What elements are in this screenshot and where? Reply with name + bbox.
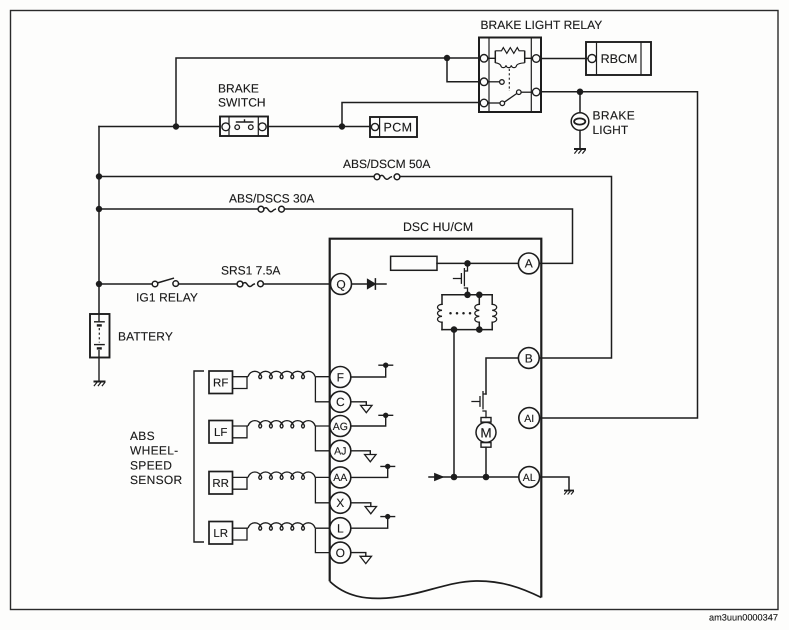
terminal AL (519, 467, 540, 488)
relay terminal 5 (532, 88, 540, 96)
svg-text:LR: LR (213, 528, 228, 540)
svg-text:am3uun0000347: am3uun0000347 (709, 613, 778, 623)
svg-text:RF: RF (213, 378, 228, 390)
wire solenoid return (453, 330, 455, 477)
twisted pair LR (248, 523, 315, 530)
terminal Q (331, 274, 352, 295)
motor M (481, 418, 491, 423)
svg-text:WHEEL-: WHEEL- (130, 444, 178, 458)
terminal A (518, 253, 539, 274)
relay BRAKE LIGHT RELAY box (479, 38, 541, 113)
sensor RF (209, 371, 330, 402)
diode from terminal Q (352, 283, 368, 285)
relay dashed actuator line (508, 69, 510, 91)
svg-text:LIGHT: LIGHT (593, 123, 629, 137)
module RBCM (586, 42, 651, 75)
wire internal ground bus to terminal AL (429, 476, 519, 478)
svg-text:IG1 RELAY: IG1 RELAY (136, 291, 198, 305)
junction ground bus / motor return (483, 474, 490, 481)
svg-text:BATTERY: BATTERY (118, 330, 173, 344)
terminal AG (330, 416, 351, 437)
fuse SRS1 7.5A (237, 281, 263, 287)
relay terminal 3 (480, 99, 488, 107)
svg-text:ABS: ABS (130, 429, 155, 443)
svg-text:Q: Q (336, 277, 345, 291)
wire IG1 relay / SRS1 run to terminal Q (99, 283, 330, 285)
svg-text:AG: AG (333, 421, 348, 433)
lamp BRAKE LIGHT (571, 113, 589, 131)
wire left bus vertical (98, 127, 100, 315)
fuse ABS/DSCM 50A (374, 174, 400, 180)
svg-text:ABS/DSCM 50A: ABS/DSCM 50A (343, 157, 430, 171)
svg-text:SRS1 7.5A: SRS1 7.5A (221, 264, 280, 278)
terminal stub O internal with ground arrow (351, 553, 366, 557)
terminal stub AA internal (351, 466, 395, 477)
wire terminal B to pump transistor (486, 358, 519, 394)
module PCM (370, 117, 417, 137)
svg-text:SWITCH: SWITCH (218, 96, 266, 110)
junction at transistor drain (464, 260, 471, 267)
wire resistor to terminal A (437, 262, 519, 264)
svg-text:SPEED: SPEED (130, 458, 172, 472)
bracket ABS wheel-speed sensor group (194, 371, 204, 542)
resistor block unlabeled (391, 256, 437, 270)
transistor solenoid driver (464, 263, 467, 294)
junction solenoid rail bottom (451, 326, 458, 333)
svg-text:RBCM: RBCM (601, 52, 638, 66)
wire drop to relay terminal 2 (447, 58, 480, 82)
wire relay terminal 4 to RBCM (540, 58, 588, 60)
terminal AJ (330, 440, 351, 461)
svg-text:BRAKE: BRAKE (593, 109, 636, 123)
arrow on ground bus (435, 473, 444, 480)
relay contact fixed NC (488, 81, 500, 83)
terminal stub F internal (351, 363, 395, 564)
wire ABS/DSCS 30A run to terminal A (99, 209, 573, 263)
svg-text:AJ: AJ (334, 446, 346, 458)
terminal X (330, 492, 351, 513)
svg-text:ABS/DSCS 30A: ABS/DSCS 30A (229, 192, 314, 206)
svg-text:A: A (525, 257, 533, 271)
terminal stub AG internal (351, 415, 393, 426)
relay terminal 4 (532, 55, 540, 63)
solenoid ellipsis dots (449, 312, 452, 315)
wire brake switch feed line (99, 126, 371, 128)
terminal C (330, 391, 351, 412)
svg-text:DSC HU/CM: DSC HU/CM (403, 220, 473, 234)
twisted pair RR (248, 472, 315, 479)
svg-text:AA: AA (333, 472, 347, 484)
svg-text:L: L (337, 522, 344, 536)
twisted pair LF (248, 421, 315, 428)
junction left bus / 50A wire (96, 173, 102, 179)
wire top feed to relay terminal 1 (176, 58, 480, 127)
terminal stub L internal (351, 517, 395, 529)
terminal stub C internal with ground arrow (351, 402, 366, 405)
svg-text:C: C (336, 395, 345, 409)
svg-text:RR: RR (212, 478, 229, 490)
junction solenoid rail top (464, 292, 471, 299)
terminal AI (519, 408, 540, 429)
transistor pump motor driver (483, 392, 486, 418)
junction ground bus / solenoid return (451, 474, 458, 481)
terminal stub X internal with ground arrow (351, 503, 371, 507)
junction left bus / IG1 wire (96, 281, 102, 287)
sensor RR (209, 472, 330, 503)
wire PCM branch up to relay terminal 3 (342, 103, 480, 127)
svg-text:AI: AI (524, 413, 534, 425)
terminal AA (330, 467, 351, 488)
switch BRAKE SWITCH (220, 117, 268, 137)
svg-text:PCM: PCM (384, 121, 413, 135)
junction brake light tap (577, 89, 584, 96)
fuse ABS/DSCS 30A (258, 206, 284, 212)
terminal F (330, 367, 351, 388)
svg-text:O: O (336, 546, 345, 560)
relay terminal 1 (480, 55, 488, 63)
wire terminal AL to ground (540, 477, 569, 490)
junction left bus / 30A wire (96, 206, 102, 212)
ground terminal AL (564, 491, 574, 495)
junction top feed split (444, 55, 450, 61)
terminal stub AJ internal with ground arrow (351, 451, 370, 455)
terminal O (330, 542, 351, 563)
svg-text:M: M (480, 425, 491, 440)
terminal L (330, 518, 351, 539)
ground battery (94, 382, 106, 387)
terminal B (518, 348, 539, 369)
svg-text:BRAKE LIGHT RELAY: BRAKE LIGHT RELAY (481, 18, 603, 32)
solenoid valve bank (442, 294, 492, 296)
sensor LF (209, 421, 330, 451)
svg-text:X: X (336, 496, 344, 510)
svg-text:LF: LF (214, 427, 227, 439)
svg-text:B: B (525, 351, 533, 365)
wire relay terminal 5 to brake light and terminal AI (540, 92, 698, 418)
junction brake switch line / top feed (173, 123, 179, 129)
ground brake light (574, 149, 586, 154)
sensor LR (209, 522, 330, 553)
relay coil with resistor (488, 57, 533, 59)
relay contact movable arm (504, 94, 516, 103)
svg-text:BRAKE: BRAKE (218, 82, 259, 96)
twisted pair RF (248, 371, 315, 378)
svg-text:AL: AL (523, 472, 536, 484)
svg-text:F: F (337, 370, 344, 384)
svg-text:SENSOR: SENSOR (130, 473, 183, 487)
switch IG1 RELAY (152, 278, 178, 287)
wire brake light drop (579, 92, 581, 149)
relay contact fixed NO (488, 102, 500, 104)
junction brake switch line / PCM branch (339, 123, 345, 129)
module DSC HU/CM box (330, 239, 542, 599)
battery (90, 314, 110, 381)
relay terminal 2 (480, 78, 488, 86)
wire ABS/DSCM 50A run to terminal B (99, 177, 612, 359)
